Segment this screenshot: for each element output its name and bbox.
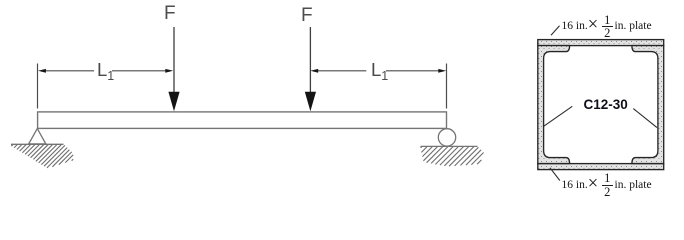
load F2 line	[309, 27, 311, 94]
beam	[38, 112, 447, 128]
dimension arrow left-left	[38, 69, 46, 73]
label top plate: "in. plate"	[615, 20, 652, 32]
multiplication sign (top label)	[588, 15, 598, 36]
load F2 arrowhead	[305, 92, 316, 112]
extension line (left)	[37, 64, 39, 109]
load F1 line	[173, 27, 175, 94]
ground hatching (left)	[11, 144, 73, 168]
label L1 (right)	[371, 59, 388, 83]
extension line (right)	[446, 64, 448, 109]
pin support (left)	[29, 129, 46, 144]
ground line (left)	[11, 143, 64, 145]
bottom plate 16x1/2	[538, 164, 664, 170]
leader line bottom plate label	[550, 168, 560, 181]
dimension line L1 (left)	[45, 70, 167, 72]
roller support (right)	[438, 129, 455, 146]
dimension arrow right-left	[310, 69, 318, 73]
load F1 arrowhead	[168, 92, 179, 112]
top plate 16x1/2	[538, 40, 664, 46]
label F1	[164, 3, 176, 25]
leader line C12-30 to left channel	[544, 106, 573, 126]
leader line top plate label	[551, 26, 560, 36]
dimension arrow right-right	[438, 69, 446, 73]
multiplication sign (bottom label)	[588, 174, 598, 195]
channel C12-30 (left)	[538, 46, 570, 164]
leader line C12-30 to right channel	[633, 109, 657, 128]
label F2	[301, 5, 313, 27]
ground line (right)	[421, 145, 478, 147]
label bottom plate: "16 in. x"	[562, 179, 588, 191]
channel C12-30 (right)	[632, 46, 664, 164]
ground hatching (right)	[421, 146, 484, 166]
label L1 (left)	[97, 59, 114, 83]
label top plate: "16 in. x"	[562, 20, 588, 32]
dimension arrow left-right	[165, 69, 173, 73]
label bottom plate: "in. plate"	[615, 179, 652, 191]
label bottom plate: fraction 1/2	[602, 172, 613, 198]
label top plate: fraction 1/2	[602, 14, 613, 40]
label C12-30	[584, 97, 628, 112]
dimension line L1 (right)	[317, 70, 440, 72]
